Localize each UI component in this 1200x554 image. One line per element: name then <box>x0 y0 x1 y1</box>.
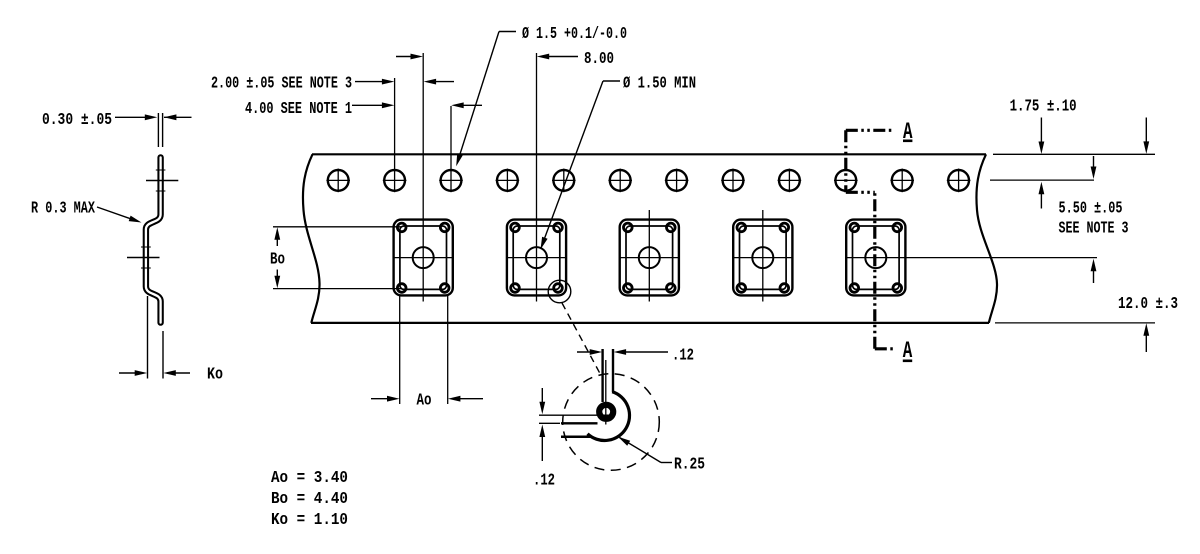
svg-text:R.25: R.25 <box>674 455 705 474</box>
svg-text:Ø 1.5 +0.1/-0.0: Ø 1.5 +0.1/-0.0 <box>522 24 627 43</box>
svg-text:2.00 ±.05 SEE NOTE 3: 2.00 ±.05 SEE NOTE 3 <box>211 74 352 93</box>
top edge extension line <box>993 153 1155 155</box>
dim .12 bottom arrows <box>541 388 543 410</box>
profile sprocket-hole centerline tick <box>146 180 178 182</box>
R 0.3 MAX leader <box>97 207 137 221</box>
svg-text:8.00: 8.00 <box>584 49 614 68</box>
detail boundary dashed circle <box>563 374 660 471</box>
dim Ao arrows <box>371 398 396 400</box>
svg-text:Ko: Ko <box>207 365 223 384</box>
dim 12.0 arrows <box>1145 118 1147 151</box>
tape top edge <box>312 153 986 155</box>
dim Ko extension lines <box>147 296 149 379</box>
svg-text:Ko = 1.10: Ko = 1.10 <box>271 510 348 529</box>
svg-text:Ao: Ao <box>417 391 432 410</box>
section line A-A jog <box>846 191 875 194</box>
detail inner corner radius knob <box>599 405 613 419</box>
detail outer corner arc R.25 <box>588 392 630 441</box>
sprocket hole 4 <box>497 170 518 191</box>
dim Bo extension lines <box>273 226 402 228</box>
dim 0.30 extension lines <box>157 113 159 147</box>
tape left break line <box>303 154 320 323</box>
pocket 5 (embossed cavity) <box>846 220 905 296</box>
pocket 2 (embossed cavity) <box>507 220 566 296</box>
dim .12 top arrows <box>577 351 599 353</box>
sprocket hole 11 <box>892 170 913 191</box>
detail marker circle on pocket 2 corner <box>548 280 571 303</box>
leader dia 1.5 sprocket hole <box>499 31 516 33</box>
tape bottom edge <box>311 322 989 324</box>
svg-text:.12: .12 <box>672 346 694 365</box>
profile sprocket hole break marks <box>156 169 166 171</box>
dim 8.00 arrows <box>396 56 419 58</box>
section line A-A lower vertical <box>873 192 876 348</box>
section line A-A bottom horizontal <box>875 347 893 350</box>
sprocket hole 3 <box>441 170 462 191</box>
svg-text:Ø 1.50 MIN: Ø 1.50 MIN <box>623 74 696 93</box>
svg-text:Bo = 4.40: Bo = 4.40 <box>271 489 348 508</box>
sprocket hole 7 <box>666 170 687 191</box>
svg-text:.12: .12 <box>533 471 555 490</box>
profile pocket-hole centerline tick <box>127 257 160 259</box>
svg-text:12.0 ±.3: 12.0 ±.3 <box>1118 294 1178 313</box>
detail wall vertical lines <box>601 349 603 402</box>
section line A-A upper vertical <box>844 130 847 192</box>
bottom edge extension line <box>995 322 1155 324</box>
profile pocket hole break marks <box>141 246 151 248</box>
dim Bo arrows <box>276 232 278 247</box>
svg-text:R 0.3 MAX: R 0.3 MAX <box>31 199 95 218</box>
sprocket hole 1 <box>328 170 349 191</box>
svg-text:4.00 SEE NOTE 1: 4.00 SEE NOTE 1 <box>245 99 352 118</box>
tape cross-section profile (side view) <box>146 157 161 322</box>
sprocket hole 8 <box>723 170 744 191</box>
detail leader dashed line <box>562 303 600 374</box>
detail wall horizontal lines <box>561 422 598 424</box>
sprocket hole 2 <box>384 170 405 191</box>
svg-text:5.50 ±.05: 5.50 ±.05 <box>1059 199 1123 218</box>
dim 1.75 arrows <box>1040 118 1042 151</box>
dim 4.00 arrows <box>352 104 391 106</box>
detail centerlines <box>605 360 607 425</box>
tape right break line <box>976 154 997 323</box>
sprocket hole 6 <box>610 170 631 191</box>
dim 0.30 arrows <box>115 116 153 118</box>
leader dia 1.50 MIN pocket hole <box>603 80 620 82</box>
sprocket hole 10 <box>835 170 856 191</box>
sprocket hole 12 <box>948 170 969 191</box>
section line A-A top horizontal <box>846 129 893 132</box>
dim 2.00 arrows <box>355 81 391 83</box>
svg-text:0.30 ±.05: 0.30 ±.05 <box>42 110 112 129</box>
dim 5.50 arrows <box>1093 156 1095 175</box>
leader R.25 <box>661 462 672 464</box>
svg-text:Ao = 3.40: Ao = 3.40 <box>271 468 348 487</box>
pocket 1 (embossed cavity) <box>394 220 453 296</box>
svg-text:1.75 ±.10: 1.75 ±.10 <box>1010 97 1077 116</box>
pocket 3 (embossed cavity) <box>620 220 679 296</box>
pocket 4 (embossed cavity) <box>733 220 792 296</box>
dim Ao extension lines <box>399 296 401 404</box>
svg-text:Bo: Bo <box>270 250 285 269</box>
dim .12 bottom extension line <box>539 422 560 424</box>
svg-text:SEE NOTE 3: SEE NOTE 3 <box>1059 219 1129 238</box>
sprocket hole 9 <box>779 170 800 191</box>
dim Ko arrows <box>119 372 144 374</box>
sprocket CL extension line <box>990 179 1094 181</box>
sprocket hole 5 <box>553 170 574 191</box>
